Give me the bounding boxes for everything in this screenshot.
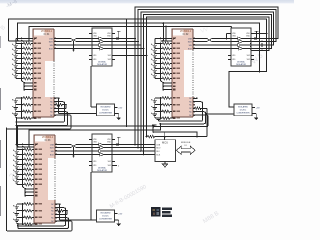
svg-text:DC/DC: DC/DC: [240, 110, 247, 112]
wire MCU power: [164, 137, 166, 140]
battery cell IC1 u6: [15, 69, 17, 71]
loop wire L1 IC1 bus over to IC2 right: [18, 23, 260, 71]
battery cell IC2 b2: [154, 105, 156, 108]
resistor IC2 row b4: [162, 117, 170, 120]
svg-text:MODULE: MODULE: [181, 142, 191, 144]
+5V output: [252, 106, 255, 108]
wire IC3 SPI to ISO3: [55, 144, 92, 146]
svg-text:DIGITAL: DIGITAL: [98, 61, 107, 64]
resistor IC1 row1: [23, 42, 31, 45]
battery cell IC2 b1: [154, 98, 156, 101]
mid vertical chain wire: [126, 19, 128, 126]
rail from IC1 chain: [16, 135, 18, 147]
resistor IC2 row b2: [162, 103, 170, 106]
svg-text:VE1: VE1: [93, 55, 96, 57]
svg-text:ISOLATOR: ISOLATOR: [236, 63, 246, 66]
resistor IC3 row3: [24, 158, 32, 161]
svg-text:SDO: SDO: [49, 41, 54, 43]
isolated DC/DC converter for IC3: [97, 210, 115, 222]
IC 1 pin numbers: [34, 38, 37, 40]
battery cell IC1 u2: [15, 49, 17, 51]
resistor IC3 row1: [24, 148, 32, 151]
ground: [115, 219, 119, 221]
wire IC2 SPI to ISO2: [193, 38, 231, 40]
resistor IC1 row5: [23, 62, 31, 65]
wire IC2 V+ to DC2: [193, 97, 197, 99]
ground: [115, 113, 119, 115]
svg-text:ISOLATOR: ISOLATOR: [97, 169, 107, 172]
svg-text:VE2: VE2: [108, 165, 111, 167]
resistor IC1 row4: [23, 57, 31, 60]
ISO2 right wires meet bus: [250, 38, 251, 40]
IC 2 pin numbers: [173, 38, 176, 40]
resistor IC1 row8: [23, 77, 31, 80]
resistor IC1 right: [54, 104, 56, 106]
svg-text:ISOLATED: ISOLATED: [100, 212, 111, 215]
wire loop to feed: [153, 132, 197, 137]
resistor IC2 row1: [162, 42, 170, 45]
svg-text:VE1: VE1: [232, 59, 235, 61]
ground: [252, 113, 256, 115]
crossing twist c2: [207, 38, 212, 43]
IC 2 mid plain pins: [163, 82, 172, 84]
resistor IC3 row6: [24, 173, 32, 176]
wire: [152, 127, 154, 132]
battery cell IC3 b2: [16, 211, 18, 214]
isolated DC/DC converter for IC1: [97, 104, 115, 116]
svg-text:SDI: SDI: [50, 45, 54, 47]
logo text bars: [162, 208, 172, 210]
resistor IC3 row7: [24, 178, 32, 181]
svg-text:IC #1: IC #1: [44, 33, 50, 36]
wire down to MCU feed: [206, 108, 208, 136]
bidirectional arrow MODULE IO: [176, 146, 195, 154]
svg-text:MCU: MCU: [162, 141, 168, 145]
loop terminals: [157, 119, 161, 121]
IC 1 left pin rows: [16, 38, 33, 40]
IC 3 left pin rows: [17, 144, 34, 146]
battery cell IC1 u1: [15, 44, 17, 46]
resistor IC1 row6: [23, 67, 31, 70]
+5V tap cluster1: [118, 31, 120, 38]
svg-text:IC #2: IC #2: [183, 33, 189, 36]
resistor IC3 row b2: [24, 209, 32, 212]
loop wire L2 IC1 bus to IC2 bus: [29, 26, 166, 41]
svg-text:VE1: VE1: [93, 165, 96, 167]
resistor IC2 right: [193, 107, 195, 109]
wire ISO1 to DC1: [90, 66, 92, 107]
resistor IC3 row b1: [24, 203, 32, 206]
wire ISO3 to DC3: [90, 172, 92, 220]
+5V output: [115, 213, 118, 215]
resistor IC1 row7: [23, 72, 31, 75]
battery cell IC2 u6: [154, 69, 156, 71]
IC3 return loops: [18, 208, 66, 226]
battery cell IC2 b3: [154, 111, 156, 114]
battery cell IC3 u1: [16, 150, 18, 152]
svg-text:VE2: VE2: [247, 59, 250, 61]
wire +5V vertical: [146, 56, 148, 137]
svg-text:VE2: VE2: [108, 59, 111, 61]
wire IC2 loop stub: [162, 23, 164, 41]
resistor IC1 row b4: [23, 117, 31, 120]
svg-text:ISOLATOR: ISOLATOR: [97, 63, 107, 66]
resistor IC1 row3: [23, 52, 31, 55]
svg-text:+5V: +5V: [118, 107, 122, 109]
ISO2 top-left elbow: [226, 33, 228, 35]
svg-text:VE2: VE2: [108, 55, 111, 57]
IC 2 body: [172, 29, 193, 117]
isolated DC/DC converter for IC2: [234, 104, 252, 116]
wire to DC2: [207, 113, 234, 115]
logo mark: [151, 207, 160, 216]
IC 1 mid plain pins: [24, 82, 33, 84]
resistor IC3 row8: [24, 183, 32, 186]
battery cell IC2 u5: [154, 64, 156, 66]
resistor IC1 row b1: [23, 97, 31, 100]
bus line 5: [147, 17, 270, 56]
digital isolator U6 for IC3: [92, 134, 112, 172]
IC1 return loops: [16, 102, 64, 122]
battery cell IC3 u2: [16, 155, 18, 157]
crossing twist: [71, 38, 76, 43]
svg-text:DIGITAL: DIGITAL: [237, 61, 246, 64]
wire IC1 SPI to ISO1: [54, 38, 92, 40]
wire +5V feed to MCU: [147, 136, 148, 138]
resistor IC1 row b2: [23, 103, 31, 106]
chain rail IC1 bus to IC3 bus: [15, 117, 17, 145]
resistor IC3 row5: [24, 168, 32, 171]
IC 2 left pin rows: [155, 38, 172, 40]
battery cell IC2 u4: [154, 59, 156, 61]
battery cell IC2 u1: [154, 44, 156, 46]
battery cell IC2 u3: [154, 54, 156, 56]
battery cell IC1 b2: [15, 105, 17, 108]
battery cell IC3 u7: [16, 180, 18, 182]
left rail down to IC3 loops: [6, 129, 8, 231]
resistor IC3 right: [55, 210, 57, 212]
svg-text:CONVERTER: CONVERTER: [99, 113, 113, 115]
+5V tap cluster2: [256, 31, 258, 38]
battery cell IC3 u5: [16, 170, 18, 172]
resistor IC2 row8: [162, 77, 170, 80]
ISO3 right wires to MCU: [112, 144, 155, 146]
svg-text:ISOLATED: ISOLATED: [100, 106, 111, 109]
bus line 3: [141, 12, 274, 45]
svg-text:VE2: VE2: [108, 161, 111, 163]
resistor R feed: [148, 135, 155, 138]
battery cell IC2 u7: [154, 74, 156, 76]
IC3 loop left rail: [17, 223, 19, 228]
svg-text:VE1: VE1: [93, 161, 96, 163]
battery cell IC3 u3: [16, 160, 18, 162]
svg-text:SDO: SDO: [50, 147, 55, 149]
resistor IC2 row6: [162, 67, 170, 70]
bus line 4: [144, 15, 272, 49]
svg-text:DC/DC: DC/DC: [102, 110, 109, 112]
wire ISO3 bottom stub: [112, 165, 117, 167]
battery cell IC1 b3: [15, 111, 17, 114]
svg-text:+5V: +5V: [256, 107, 260, 109]
resistor IC2 row b1: [162, 97, 170, 100]
wire IC3 V+ to DC3: [59, 203, 61, 205]
svg-text:SDO: SDO: [156, 147, 161, 149]
+5V output: [115, 106, 118, 108]
svg-text:+5V: +5V: [118, 214, 122, 216]
digital isolator U4 for IC2: [231, 28, 251, 66]
resistor IC2 row5: [162, 62, 170, 65]
scan edge marks: [0, 88, 1, 110]
MCU ground: [164, 162, 166, 165]
digital isolator U2 for IC1: [92, 28, 112, 66]
MCU block: [155, 140, 175, 162]
svg-text:SDO: SDO: [188, 41, 193, 43]
bus line 1: [135, 7, 278, 39]
long vertical bus to lower cluster: [134, 39, 136, 145]
resistor IC1 row2: [23, 47, 31, 50]
resistor IC1 row b3: [23, 110, 31, 113]
resistor IC2 row7: [162, 72, 170, 75]
resistor IC3 row b4: [24, 223, 32, 226]
svg-text:ISOLATED: ISOLATED: [238, 106, 249, 109]
svg-text:CONVERTER: CONVERTER: [236, 113, 250, 115]
svg-text:IC #3: IC #3: [45, 139, 51, 142]
svg-text:SDI: SDI: [51, 151, 55, 153]
IC 3 mid plain pins: [25, 188, 34, 190]
svg-text:IO: IO: [185, 145, 188, 147]
loop wires IC3 top: [29, 124, 160, 147]
svg-text:CONVERTER: CONVERTER: [99, 219, 113, 221]
loop wire L3 outer to DC2: [9, 19, 267, 107]
IC2 return loops: [159, 102, 203, 122]
battery cell IC1 u7: [15, 74, 17, 76]
svg-text:VE1: VE1: [232, 55, 235, 57]
bus line 2: [138, 10, 276, 42]
svg-text:VE1: VE1: [93, 59, 96, 61]
wire ISO2 VDD to bus: [254, 33, 267, 35]
battery cell IC1 b1: [15, 98, 17, 101]
resistor IC3 row2: [24, 153, 32, 156]
resistor IC2 row b3: [162, 110, 170, 113]
svg-text:SDI: SDI: [189, 45, 193, 47]
net arrow: [73, 42, 75, 51]
svg-text:DC/DC: DC/DC: [102, 216, 109, 218]
inner loop right side around IC2: [166, 25, 232, 27]
battery cell IC3 u4: [16, 165, 18, 167]
battery cell IC1 u5: [15, 64, 17, 66]
IC 1 body: [33, 29, 54, 117]
IC 3 body: [34, 135, 55, 223]
IC 3 pin numbers: [35, 144, 38, 146]
resistor IC3 row4: [24, 163, 32, 166]
ISO1 output wires to vertical bus: [112, 38, 135, 40]
crossing twist c3: [71, 144, 76, 149]
resistor IC3 row b3: [24, 216, 32, 219]
battery cell IC3 b3: [16, 217, 18, 220]
resistor IC2 row4: [162, 57, 170, 60]
faint watermarks: [0, 0, 265, 225]
battery cell IC3 u6: [16, 175, 18, 177]
svg-text:SDI: SDI: [156, 151, 160, 153]
svg-text:VE2: VE2: [247, 55, 250, 57]
+5V T symbol above MCU: [164, 132, 166, 136]
battery cell IC2 u2: [154, 49, 156, 51]
resistor IC2 row3: [162, 52, 170, 55]
battery cell IC1 u3: [15, 54, 17, 56]
battery cell IC1 u4: [15, 59, 17, 61]
svg-text:DIGITAL: DIGITAL: [98, 167, 107, 170]
wire IC1 V+ to DC1: [58, 97, 60, 99]
resistor IC2 row2: [162, 47, 170, 50]
battery cell IC3 b1: [16, 204, 18, 207]
+5V tap cluster3: [118, 137, 120, 144]
